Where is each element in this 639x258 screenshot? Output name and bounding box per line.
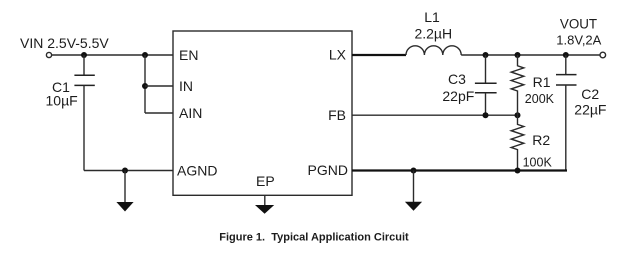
- node junction R2 bottom: [515, 168, 521, 174]
- ground (EP pad): [255, 205, 274, 214]
- resistor R1: [511, 55, 524, 115]
- node junction FB divider: [515, 112, 521, 118]
- capacitor C1: [74, 55, 94, 171]
- svg-text:22µF: 22µF: [574, 102, 606, 118]
- node junction VIN/C1: [81, 52, 87, 58]
- capacitor C3: [475, 55, 497, 115]
- wire to AIN pin: [145, 112, 173, 114]
- svg-text:C3: C3: [448, 71, 466, 87]
- wire L1 to VOUT: [461, 54, 600, 56]
- node junction PGND/ground: [411, 168, 417, 174]
- node junction EN rail: [142, 52, 148, 58]
- svg-text:Figure 1. Typical Application: Figure 1. Typical Application Circuit: [219, 232, 409, 244]
- svg-text:200K: 200K: [525, 92, 555, 106]
- ground (power, middle): [405, 171, 422, 211]
- node junction R1 top: [515, 52, 521, 58]
- terminal VIN (open circle): [46, 52, 51, 57]
- svg-text:IN: IN: [179, 78, 193, 94]
- svg-text:10µF: 10µF: [46, 93, 78, 109]
- resistor R2: [511, 115, 524, 170]
- svg-text:1.8V,2A: 1.8V,2A: [556, 32, 601, 47]
- node junction C2 top: [563, 52, 569, 58]
- node junction C3 top: [483, 52, 489, 58]
- node junction AGND/ground: [122, 168, 128, 174]
- svg-text:VOUT: VOUT: [560, 16, 597, 31]
- svg-text:C2: C2: [581, 86, 599, 102]
- svg-text:R1: R1: [533, 74, 551, 90]
- wire vertical EN/IN/AIN bus: [144, 55, 146, 113]
- wire FB pin: [352, 114, 518, 116]
- wire C1 to AGND pin: [84, 170, 173, 172]
- svg-text:EN: EN: [179, 47, 198, 63]
- svg-text:100K: 100K: [523, 156, 553, 170]
- svg-text:2.2µH: 2.2µH: [414, 26, 452, 42]
- svg-text:22pF: 22pF: [442, 88, 474, 104]
- svg-text:FB: FB: [328, 107, 346, 123]
- capacitor C2: [556, 55, 577, 171]
- svg-text:L1: L1: [424, 9, 440, 25]
- op-amp U1 (IC body): [173, 31, 352, 195]
- wire to IN pin: [145, 85, 173, 87]
- inductor L1: [406, 46, 461, 55]
- wire LX pin (bold): [352, 54, 406, 56]
- svg-text:VIN 2.5V-5.5V: VIN 2.5V-5.5V: [20, 35, 109, 51]
- wire EP to ground: [264, 195, 266, 205]
- ground (analog, left): [116, 171, 133, 212]
- svg-text:AGND: AGND: [177, 163, 217, 179]
- wire VIN rail to EN pin: [52, 54, 173, 56]
- svg-text:AIN: AIN: [179, 105, 202, 121]
- node junction IN: [142, 83, 148, 89]
- wire PGND rail (bold): [352, 169, 567, 171]
- node junction C3 bottom: [483, 112, 489, 118]
- svg-text:R2: R2: [532, 132, 550, 148]
- terminal VOUT (open circle): [600, 52, 606, 58]
- svg-text:LX: LX: [329, 47, 347, 63]
- svg-text:PGND: PGND: [308, 162, 348, 178]
- svg-text:EP: EP: [256, 173, 275, 189]
